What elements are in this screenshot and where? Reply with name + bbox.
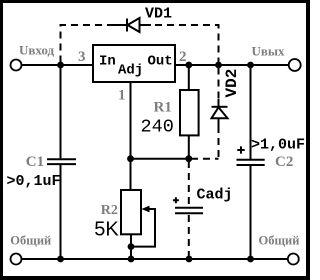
svg-text:Общий: Общий (10, 233, 51, 247)
svg-text:C2: C2 (275, 154, 293, 170)
svg-text:VD2: VD2 (223, 69, 241, 98)
svg-text:>1,0uF: >1,0uF (251, 137, 305, 154)
svg-text:1: 1 (118, 88, 126, 104)
svg-text:VD1: VD1 (145, 6, 172, 23)
svg-text:R1: R1 (154, 100, 172, 116)
svg-text:Общий: Общий (259, 233, 300, 247)
svg-text:Out: Out (148, 54, 173, 70)
svg-text:Uвход: Uвход (19, 42, 55, 57)
svg-text:Adj: Adj (118, 63, 143, 79)
svg-text:>0,1uF: >0,1uF (7, 173, 61, 190)
svg-text:Uвых: Uвых (252, 44, 286, 59)
svg-text:3: 3 (78, 49, 86, 65)
svg-text:2: 2 (179, 49, 187, 65)
svg-text:R2: R2 (101, 203, 118, 218)
svg-text:C1: C1 (26, 154, 44, 170)
svg-text:In: In (99, 54, 116, 70)
svg-text:240: 240 (141, 117, 174, 138)
svg-text:5K: 5K (94, 219, 119, 241)
svg-text:Cadj: Cadj (197, 187, 233, 204)
